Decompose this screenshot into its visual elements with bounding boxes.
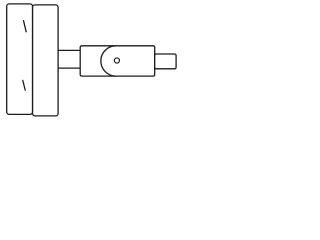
stem lower wire: [58, 67, 80, 69]
slash mark 2 (lower tick in left plate): [23, 80, 25, 90]
left plate A: [7, 4, 33, 115]
stem upper wire: [58, 49, 80, 51]
slash mark 1 (upper tick in left plate): [24, 21, 27, 32]
tip block: [155, 54, 176, 69]
housing body: [80, 46, 155, 76]
pivot hole circle: [114, 58, 119, 63]
inner semicircular arc: [101, 46, 116, 76]
right plate B: [33, 5, 59, 116]
